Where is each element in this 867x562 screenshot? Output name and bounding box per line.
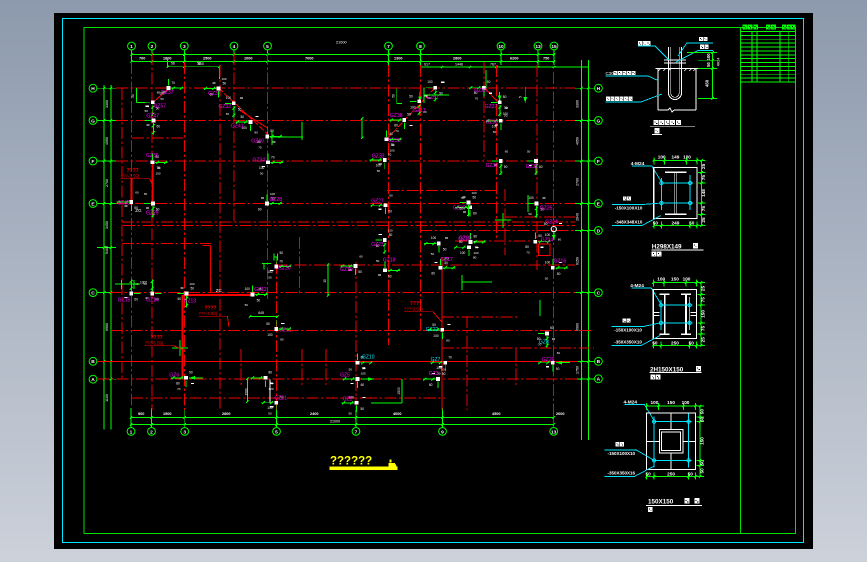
axis 1 line: [131, 62, 133, 410]
svg-text:50: 50: [349, 368, 353, 372]
column GZ38: [486, 114, 508, 134]
svg-text:10: 10: [498, 44, 504, 50]
axis bubble A (right): [595, 375, 603, 383]
svg-text:60: 60: [361, 383, 365, 387]
svg-text:4050: 4050: [576, 137, 580, 145]
svg-text:50: 50: [461, 196, 465, 200]
svg-text:GZ19: GZ19: [340, 267, 353, 273]
svg-text:50: 50: [377, 169, 381, 173]
svg-text:60: 60: [460, 206, 464, 210]
axis bubble 13 (top): [534, 42, 542, 50]
svg-text:70: 70: [475, 97, 479, 101]
svg-text:C: C: [597, 291, 601, 297]
svg-text:7: 7: [387, 44, 390, 50]
svg-text:70: 70: [279, 259, 283, 263]
svg-text:6150: 6150: [576, 257, 580, 265]
column GZ22: [426, 323, 451, 343]
svg-text:50: 50: [160, 97, 164, 101]
svg-text:100: 100: [682, 400, 690, 405]
svg-text:B: B: [91, 359, 95, 365]
svg-text:75: 75: [701, 206, 706, 212]
axis bubble 4 (top): [230, 42, 238, 50]
svg-text:GZ47: GZ47: [146, 114, 159, 120]
partial grid x299: [299, 237, 301, 293]
column GZ23: [371, 229, 393, 255]
svg-text:2700: 2700: [576, 178, 580, 186]
partial grid line y243: [122, 243, 211, 245]
svg-text:100: 100: [474, 251, 479, 255]
svg-text:GZ7: GZ7: [431, 357, 441, 363]
subtitle plan view 3: [648, 507, 653, 512]
green leader GZ37pair: [499, 92, 501, 102]
svg-text:50: 50: [268, 412, 272, 416]
svg-text:60: 60: [539, 165, 543, 169]
axis bubble 7 (bottom): [352, 428, 360, 436]
svg-text:GZ6: GZ6: [169, 373, 179, 379]
svg-text:250: 250: [671, 340, 679, 345]
svg-text:249: 249: [672, 221, 680, 226]
svg-text:25: 25: [701, 163, 706, 169]
svg-text:-150X100X10: -150X100X10: [608, 451, 636, 456]
svg-text:6900: 6900: [105, 323, 109, 331]
svg-text:-350X350X10: -350X350X10: [614, 339, 642, 344]
svg-text:60: 60: [388, 274, 392, 278]
svg-text:4050: 4050: [105, 137, 109, 145]
green arrow near GZ26 lower: [556, 362, 570, 364]
anchor bolt shaft and U-hook: [664, 47, 686, 100]
red diagonal leader GZ37 pair top right: [485, 89, 499, 104]
svg-text:6900: 6900: [576, 323, 580, 331]
svg-text:-150X100X10: -150X100X10: [614, 328, 642, 333]
axis 6 line: [388, 65, 390, 345]
svg-text:150: 150: [667, 400, 675, 405]
svg-text:70: 70: [171, 81, 175, 85]
axis G line: [116, 120, 575, 122]
yellow underline bar: [330, 467, 398, 470]
svg-text:2700: 2700: [105, 179, 109, 187]
partial grid x484: [483, 62, 485, 160]
svg-text:1300: 1300: [394, 56, 402, 60]
axis bubble 9 (bottom): [439, 428, 447, 436]
svg-text:GZ39: GZ39: [486, 163, 499, 169]
svg-text:700: 700: [139, 56, 145, 60]
column node39: [251, 371, 274, 391]
left boundary grid line: [121, 88, 123, 379]
svg-text:50: 50: [652, 340, 658, 345]
svg-text:50: 50: [487, 80, 491, 84]
short red stubs crossing B/A axes: [240, 349, 242, 385]
note nut (white): [699, 37, 703, 41]
svg-text:50: 50: [226, 112, 230, 116]
svg-text:70: 70: [448, 356, 452, 360]
svg-text:58: 58: [171, 62, 175, 66]
axis 9b line (solid): [441, 257, 443, 410]
column GZ34: [253, 153, 284, 175]
axis bubble 15 (top): [550, 42, 558, 50]
column GZ37: [485, 95, 508, 116]
grid line x220: [219, 65, 221, 410]
svg-text:100: 100: [390, 148, 395, 152]
small bracket dim near axis 3-4: [168, 66, 220, 68]
column GZ18: [376, 258, 400, 279]
column GZ41: [231, 115, 259, 134]
svg-text:50: 50: [700, 468, 705, 474]
svg-text:4: 4: [233, 44, 236, 50]
svg-text:50: 50: [706, 62, 711, 67]
axis 3 line: [184, 62, 186, 410]
svg-text:100: 100: [683, 277, 691, 282]
svg-text:80: 80: [269, 371, 273, 375]
column GZ35: [146, 153, 168, 175]
svg-text:GZ41: GZ41: [231, 124, 244, 130]
column GZ40: [251, 127, 282, 149]
svg-text:ZC: ZC: [216, 288, 223, 293]
svg-text:100: 100: [388, 229, 393, 233]
svg-text:75: 75: [701, 325, 706, 331]
svg-text:GZ23: GZ23: [474, 88, 487, 94]
svg-text:GZ39: GZ39: [388, 138, 401, 144]
column GZ20: [267, 257, 291, 279]
svg-text:50: 50: [189, 370, 193, 374]
svg-text:80: 80: [474, 235, 478, 239]
svg-text:60: 60: [473, 211, 477, 215]
svg-text:50: 50: [376, 259, 380, 263]
column GZ28: [258, 192, 282, 211]
svg-text:50: 50: [191, 286, 195, 290]
svg-text:GZ17: GZ17: [440, 257, 453, 263]
axis E line: [116, 203, 575, 205]
svg-text:GZ15: GZ15: [118, 298, 131, 304]
svg-text:100: 100: [460, 251, 466, 255]
red roof diagonal left short: [153, 87, 171, 103]
svg-text:70: 70: [504, 114, 508, 118]
svg-text:1750: 1750: [576, 366, 580, 374]
svg-text:15: 15: [551, 44, 557, 50]
column GZ34: [525, 233, 553, 255]
svg-text:100: 100: [433, 334, 439, 338]
svg-text:100: 100: [706, 53, 711, 61]
svg-text:50: 50: [550, 326, 554, 330]
svg-text:50: 50: [545, 276, 549, 280]
axis 5b line: [275, 262, 277, 410]
secondary top dim row right: [420, 66, 588, 68]
column node20: [424, 236, 448, 256]
svg-text:100: 100: [545, 233, 551, 237]
svg-text:3: 3: [183, 429, 186, 435]
svg-text:GZ32: GZ32: [219, 104, 232, 110]
svg-text:1500: 1500: [245, 388, 249, 395]
svg-text:GZ37: GZ37: [161, 90, 174, 96]
svg-text:2400: 2400: [310, 412, 318, 416]
column GZ5: [340, 368, 364, 389]
svg-text:100: 100: [441, 368, 446, 372]
red note 2 (elev -3.59): [198, 306, 229, 327]
svg-text:GZ27: GZ27: [371, 199, 384, 205]
svg-text:50: 50: [131, 94, 135, 98]
column GZ16: [545, 259, 568, 281]
column base detail H298X149: [612, 154, 706, 228]
svg-text:3300: 3300: [576, 100, 580, 108]
partial grid line y217: [505, 216, 575, 218]
white guide line near GZ24: [269, 380, 271, 403]
green arrow near GZ5: [361, 378, 374, 380]
svg-text:5: 5: [266, 44, 269, 50]
svg-text:50: 50: [653, 221, 659, 226]
title-block strip divider: [740, 28, 742, 534]
svg-text:A: A: [597, 377, 601, 383]
column base detail 150X150: [605, 400, 705, 480]
right dimension line 2: [588, 60, 590, 440]
cyan paper border: [63, 19, 804, 543]
subtitle plan view: [652, 252, 657, 257]
svg-text:GZ38: GZ38: [486, 120, 499, 126]
svg-text:100: 100: [267, 333, 273, 337]
svg-text:80: 80: [255, 130, 259, 134]
svg-text:50: 50: [528, 212, 532, 216]
column GZ11: [266, 320, 291, 342]
svg-text:60: 60: [431, 272, 435, 276]
svg-text:2500: 2500: [203, 56, 211, 60]
partial grid line y330: [111, 330, 594, 332]
column GZ25: [527, 196, 552, 218]
green dim line near GZ24: [246, 379, 248, 402]
svg-text:100: 100: [651, 400, 659, 405]
svg-text:80: 80: [503, 95, 507, 99]
svg-text:100: 100: [528, 196, 534, 200]
svg-text:???-3.59): ???-3.59): [121, 174, 140, 179]
svg-text:60: 60: [557, 351, 561, 355]
svg-text:7: 7: [355, 429, 358, 435]
partial grid line y222: [122, 221, 575, 223]
svg-text:???-3.59): ???-3.59): [404, 307, 423, 312]
svg-text:GZ17: GZ17: [413, 108, 426, 114]
column GZ33: [370, 153, 392, 173]
svg-text:F: F: [92, 159, 95, 165]
column GZ23: [469, 80, 492, 101]
svg-text:70: 70: [388, 153, 392, 157]
column GZ47: [145, 109, 161, 135]
anchor bolt green dims: [687, 53, 717, 99]
partial grid line y265: [275, 264, 575, 266]
axis H line: [116, 87, 575, 89]
svg-text:50: 50: [144, 192, 148, 196]
axis 8 line: [496, 65, 498, 240]
top dimension line 2: [131, 61, 555, 63]
axis C line: [110, 292, 578, 294]
svg-text:100: 100: [545, 260, 551, 264]
svg-text:-348X348X10: -348X348X10: [615, 220, 643, 225]
axis bubble 13 (bottom): [550, 428, 558, 436]
svg-text:GZ22: GZ22: [426, 327, 439, 333]
svg-text:75: 75: [701, 297, 706, 303]
thick red wall segment x131: [130, 178, 132, 205]
anchor bolt detail: concrete block: [656, 68, 699, 112]
svg-text:3450: 3450: [105, 221, 109, 229]
axis bubble D (right): [595, 227, 603, 235]
svg-text:GZ38: GZ38: [390, 113, 403, 119]
column GZ57: [144, 91, 167, 117]
partial grid line y241: [455, 240, 540, 242]
column GZ14: [143, 279, 161, 303]
column GZ17: [431, 256, 455, 275]
axis bubble A (left): [89, 375, 97, 383]
svg-text:80: 80: [394, 124, 398, 128]
svg-text:60: 60: [157, 91, 161, 95]
note XX pad (white): [638, 41, 642, 45]
axis bubble 2 (top): [148, 42, 156, 50]
svg-text:60: 60: [429, 383, 433, 387]
column GZ32: [219, 96, 243, 118]
svg-text:GZ34: GZ34: [541, 238, 554, 244]
column GZ27: [370, 194, 393, 215]
svg-text:G: G: [91, 118, 95, 124]
column GZ37: [159, 79, 183, 101]
svg-text:GZ37: GZ37: [485, 104, 498, 110]
svg-text:917: 917: [424, 62, 430, 66]
svg-text:50: 50: [389, 233, 393, 237]
svg-text:50: 50: [361, 407, 365, 411]
thick red wall segment vertical: [182, 295, 184, 378]
green bracket left of GZ20: [262, 263, 271, 265]
svg-text:4500: 4500: [492, 412, 500, 416]
svg-text:60: 60: [359, 255, 363, 259]
svg-text:100: 100: [472, 191, 477, 195]
column GZ39: [486, 150, 509, 176]
svg-text:50: 50: [280, 251, 284, 255]
svg-text:80: 80: [446, 338, 450, 342]
svg-text:50: 50: [556, 367, 560, 371]
svg-text:GZ57: GZ57: [426, 95, 439, 101]
svg-text:50: 50: [504, 165, 508, 169]
svg-text:GZ16: GZ16: [554, 259, 567, 265]
svg-text:13: 13: [551, 429, 557, 435]
green sheet frame: [84, 28, 796, 534]
svg-text:3: 3: [183, 44, 186, 50]
svg-text:60: 60: [505, 150, 509, 154]
svg-text:??????: ??????: [330, 456, 372, 468]
svg-text:80: 80: [473, 256, 477, 260]
svg-text:G: G: [597, 118, 601, 124]
bottom dimension line 1: [131, 417, 554, 419]
svg-text:50: 50: [260, 171, 264, 175]
axis bubble B (right): [595, 357, 603, 365]
column GZ31: [526, 150, 543, 176]
column GZ1: [342, 395, 366, 415]
svg-text:5: 5: [519, 96, 523, 98]
svg-text:50: 50: [443, 248, 447, 252]
subtitle plan view 2: [651, 375, 656, 380]
axis 4 line: [233, 53, 235, 222]
axis bubble F (right): [595, 157, 603, 165]
svg-text:450: 450: [705, 79, 710, 87]
green arrow near GZ6: [189, 377, 203, 379]
svg-text:70: 70: [526, 251, 530, 255]
top dimension line 1: [131, 54, 555, 56]
svg-text:???-3.59): ???-3.59): [145, 341, 164, 346]
green leader GZ17 chain: [419, 91, 421, 102]
partial grid line y348: [442, 347, 594, 349]
svg-text:50: 50: [557, 272, 561, 276]
red step outline near axis 4: [202, 244, 210, 246]
svg-text:60: 60: [178, 297, 182, 301]
svg-text:GZ30: GZ30: [117, 201, 130, 207]
axis bubble 3 (top): [180, 42, 188, 50]
svg-text:80: 80: [176, 381, 180, 385]
svg-text:H: H: [597, 86, 601, 92]
svg-text:4M24: 4M24: [717, 58, 721, 67]
svg-text:GZ21: GZ21: [274, 396, 287, 402]
svg-text:C30: C30: [606, 71, 615, 76]
svg-text:2640: 2640: [576, 213, 580, 221]
svg-text:50: 50: [238, 107, 242, 111]
svg-text:1000: 1000: [244, 56, 252, 60]
red shaft box upper right of C: [539, 244, 550, 256]
svg-text:2800: 2800: [222, 412, 230, 416]
axis 5 line: [267, 53, 269, 300]
svg-text:70: 70: [177, 387, 181, 391]
column GZ17: [409, 94, 427, 115]
svg-text:50: 50: [391, 94, 395, 98]
svg-text:750: 750: [543, 56, 549, 60]
svg-text:GZ23: GZ23: [371, 242, 384, 248]
svg-text:100: 100: [658, 154, 666, 159]
axis bubble 1 (top): [128, 42, 136, 50]
partial grid line y225: [123, 225, 575, 227]
axis bubble 10 (top): [497, 42, 505, 50]
svg-text:50: 50: [407, 113, 411, 117]
svg-text:GZ1: GZ1: [343, 397, 353, 403]
svg-text:25: 25: [701, 217, 706, 223]
axis 9 line: [536, 65, 538, 270]
svg-text:50: 50: [268, 275, 272, 279]
svg-text:8: 8: [419, 44, 422, 50]
svg-text:900: 900: [138, 412, 144, 416]
svg-text:50: 50: [442, 372, 446, 376]
svg-text:50: 50: [527, 150, 531, 154]
column GZ15: [118, 279, 141, 303]
column GZ12: [245, 286, 268, 308]
axis B line (solid): [97, 360, 578, 362]
svg-text:50: 50: [388, 209, 392, 213]
axis 2 line: [151, 53, 153, 410]
partial grid line y138: [132, 137, 186, 139]
svg-text:50: 50: [257, 299, 261, 303]
svg-text:GZ31: GZ31: [526, 164, 539, 170]
svg-text:70: 70: [395, 129, 399, 133]
svg-text:50: 50: [358, 270, 362, 274]
svg-text:50: 50: [473, 196, 477, 200]
solid red column line axis2 F-E: [152, 162, 154, 203]
svg-text:80: 80: [525, 245, 529, 249]
svg-text:GZ37: GZ37: [208, 91, 221, 97]
svg-text:GZ29: GZ29: [146, 211, 159, 217]
svg-text:50: 50: [689, 221, 695, 226]
red note 4 (elev -3.50): [404, 301, 442, 322]
axis 7b line: [355, 262, 357, 410]
svg-text:GZ40: GZ40: [251, 139, 264, 145]
svg-text:GZ33: GZ33: [372, 154, 385, 160]
svg-text:100: 100: [431, 236, 437, 240]
svg-text:60: 60: [135, 191, 139, 195]
svg-text:3300: 3300: [105, 100, 109, 108]
column GZ29: [144, 192, 160, 218]
axis bubble C (left): [89, 289, 97, 297]
svg-text:GZ3: GZ3: [429, 371, 439, 377]
svg-text:-350X350X16: -350X350X16: [608, 470, 636, 475]
svg-text:2: 2: [150, 429, 153, 435]
svg-text:80: 80: [390, 132, 394, 136]
axis bubble F (left): [89, 157, 97, 165]
